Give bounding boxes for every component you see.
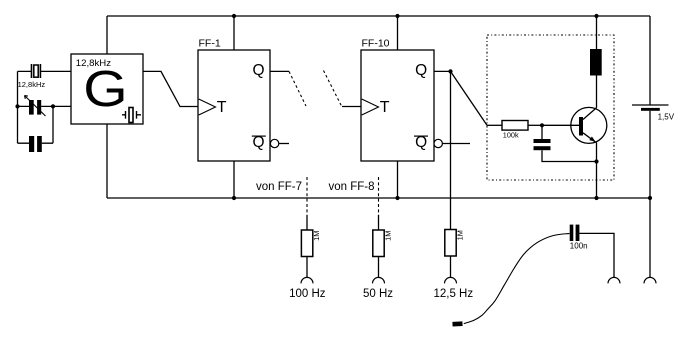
wire crystal branch left vertical — [17, 71, 19, 143]
wire top supply rail — [107, 15, 650, 17]
wire dashed from FF-8 — [378, 177, 380, 215]
svg-text:von FF-8: von FF-8 — [328, 181, 374, 193]
node coil top rail junction — [594, 14, 598, 18]
wire FF-1 top to rail — [233, 16, 235, 50]
pin T trigger triangle FF-1 — [199, 99, 216, 115]
wire R3 to connector — [378, 257, 380, 278]
wire dashed omitted stages diagonal 2 — [324, 71, 343, 108]
coil L1 clockwork coil — [590, 49, 602, 76]
wire battery bottom to rail — [649, 111, 651, 198]
svg-text:12,8kHz: 12,8kHz — [18, 80, 46, 89]
connector C4 terminal — [608, 277, 620, 283]
wire G top to rail — [106, 16, 108, 54]
connector 12,5Hz terminal — [445, 277, 457, 283]
svg-text:G: G — [83, 61, 127, 118]
wire battery rail to connector — [649, 198, 651, 277]
svg-text:1M: 1M — [383, 231, 392, 241]
wire to R3 — [378, 215, 380, 230]
connector 100Hz terminal — [301, 277, 313, 283]
wire collector up to coil — [596, 76, 598, 108]
wire probe S-curve — [464, 233, 570, 323]
svg-text:FF-1: FF-1 — [199, 37, 221, 49]
wire bottom supply rail — [107, 197, 650, 199]
flip-flop FF-10 box — [361, 50, 434, 161]
svg-text:Q: Q — [253, 134, 265, 151]
svg-text:100 Hz: 100 Hz — [289, 288, 326, 300]
svg-text:T: T — [217, 99, 227, 116]
svg-text:50 Hz: 50 Hz — [363, 288, 393, 300]
wire Q down to 12,5Hz branch — [450, 71, 452, 229]
wire coil to top rail — [596, 16, 598, 49]
svg-text:Q: Q — [415, 62, 427, 79]
node base junction — [540, 123, 544, 127]
wire trimmer row — [18, 105, 72, 107]
pin Qbar bubble FF-1 — [270, 139, 278, 147]
svg-text:T: T — [380, 99, 390, 116]
wire Q diagonal into amplifier — [451, 71, 488, 125]
svg-text:FF-10: FF-10 — [362, 37, 390, 49]
wire emitter down — [596, 143, 598, 162]
wire FF-1 bottom to rail — [233, 161, 235, 198]
wire trimmer right vertical — [52, 106, 54, 143]
node crystal-cap junction left — [15, 104, 19, 108]
wire into FF-10 T — [342, 106, 361, 108]
wire FF-10 Q output — [434, 70, 451, 72]
label Qbar FF-10 — [414, 134, 428, 151]
svg-text:100n: 100n — [570, 242, 588, 251]
wire C4 to connector — [579, 233, 614, 277]
wire dashed from FF-7 — [306, 177, 308, 215]
wire crystal row — [18, 70, 72, 72]
probe tip blob — [453, 321, 463, 326]
svg-text:Q: Q — [253, 62, 265, 79]
pin T trigger triangle FF-10 — [362, 99, 379, 115]
node FF-10 Q junction — [448, 69, 452, 73]
transistor Q2 — [571, 107, 607, 143]
pin Qbar bubble FF-10 — [434, 139, 442, 147]
wire G output zigzag to FF-1 T — [143, 71, 198, 106]
svg-text:1M: 1M — [312, 231, 321, 241]
node FF-1 bottom rail junction — [232, 196, 236, 200]
node emitter junction — [594, 159, 598, 163]
crystal Q1 12,8kHz — [32, 64, 41, 78]
node emitter bottom rail junction — [594, 196, 598, 200]
resistor R4 1M — [445, 230, 456, 257]
wire emitter to bottom rail — [596, 162, 598, 199]
wire R2 to connector — [306, 257, 308, 278]
wire FF-10 bottom to rail — [397, 161, 399, 198]
node FF-10 bottom rail junction — [395, 196, 399, 200]
connector 50Hz terminal — [373, 277, 385, 283]
wire FF-10 top to rail — [397, 16, 399, 50]
node FF-1 top rail junction — [232, 14, 236, 18]
wire into 100k — [487, 124, 502, 126]
svg-text:1M: 1M — [455, 230, 464, 240]
wire FF-10 Qbar stub — [442, 143, 470, 145]
svg-text:1,5V: 1,5V — [658, 112, 675, 121]
wire FF-1 Q output — [270, 70, 289, 72]
wire dashed omitted stages diagonal 1 — [289, 71, 306, 106]
icon crystal inside G — [122, 108, 141, 123]
svg-text:Q: Q — [415, 134, 427, 151]
capacitor C4 100n — [570, 225, 580, 241]
wire R4 to connector — [450, 256, 452, 277]
dotted amplifier boundary box — [487, 35, 614, 180]
wire battery top — [649, 16, 651, 105]
resistor R1 100k — [502, 121, 528, 131]
svg-text:12,5 Hz: 12,5 Hz — [433, 288, 473, 300]
resistor R2 1M — [301, 230, 312, 257]
wire 100k to base node — [528, 124, 542, 126]
svg-text:von FF-7: von FF-7 — [256, 181, 302, 193]
node battery bottom rail junction — [648, 196, 652, 200]
wire C3 to emitter rail — [542, 150, 597, 161]
connector battery terminal — [644, 277, 656, 283]
capacitor C2 — [29, 136, 42, 152]
wire G bottom to rail — [106, 124, 108, 198]
resistor R3 1M — [373, 230, 384, 257]
wire to R2 — [306, 215, 308, 230]
wire lower cap row — [18, 142, 54, 144]
trimmer capacitor C1 — [25, 96, 46, 117]
wire base node to transistor — [542, 124, 579, 126]
oscillator U1 G box — [71, 54, 143, 124]
flip-flop FF-1 box — [198, 50, 270, 161]
node FF-10 top rail junction — [395, 14, 399, 18]
battery B1 1,5V — [632, 105, 669, 111]
wire FF-1 Qbar stub — [279, 143, 289, 145]
label Qbar FF-1 — [252, 134, 266, 151]
capacitor C3 — [534, 139, 551, 150]
svg-text:100k: 100k — [503, 131, 519, 140]
node crystal-cap junction right — [51, 104, 55, 108]
wire base node down to C3 — [541, 125, 543, 139]
